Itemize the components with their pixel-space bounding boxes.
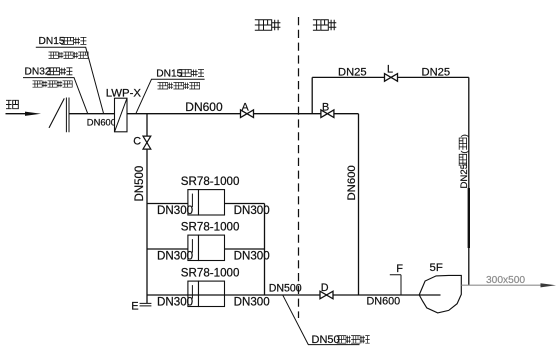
svg-text:DN15: DN15 — [39, 36, 65, 47]
wire filter branch row2 — [147, 248, 265, 250]
label DN500 vertical — [134, 166, 146, 202]
svg-text:DN600: DN600 — [346, 165, 358, 200]
label line2 radioactive sampling tube — [33, 81, 73, 87]
sampling tap F — [390, 275, 401, 295]
label DN32 galvanized tube — [25, 67, 73, 78]
svg-text:SR78-1000: SR78-1000 — [181, 220, 240, 233]
wire right manifold — [264, 204, 266, 296]
svg-text:DN600: DN600 — [367, 296, 401, 308]
svg-text:DN600: DN600 — [185, 100, 223, 114]
valve C — [143, 136, 151, 149]
leader for DN32 label — [23, 78, 88, 114]
filter SR78-1000 unit 3 — [188, 281, 225, 306]
svg-text:DN500: DN500 — [134, 166, 146, 202]
leader for right DN15 label — [136, 79, 205, 113]
svg-text:DN50: DN50 — [312, 334, 340, 346]
svg-text:DN300: DN300 — [157, 296, 193, 309]
arrow outlet flow — [541, 283, 557, 287]
label line2 filter pressure tube — [158, 83, 200, 90]
leader for DN15 label — [36, 47, 104, 113]
fan 5F outline — [419, 275, 461, 313]
svg-text:DN25: DN25 — [459, 164, 470, 189]
leader drain annotation — [283, 295, 360, 344]
wire DN25 right vertical — [468, 77, 470, 285]
svg-text:A: A — [242, 101, 250, 113]
svg-text:DN500: DN500 — [269, 282, 302, 294]
wire DN600 drop from B — [358, 114, 360, 295]
wire fan outlet duct 300x500 — [461, 284, 541, 286]
svg-text:): ) — [459, 134, 469, 137]
svg-text:B: B — [322, 101, 329, 113]
arrow fresh-air flow — [25, 112, 41, 116]
svg-text:DN32: DN32 — [25, 67, 51, 78]
label DN15 galvanized tube (top-left) — [39, 36, 87, 47]
svg-text:DN15: DN15 — [156, 68, 182, 79]
wire DN25 riser up — [311, 77, 313, 113]
oil-net dust filter LWP-X — [115, 98, 128, 132]
label DN25 galvanized vertical — [459, 134, 470, 188]
svg-text:L: L — [387, 64, 393, 76]
flexible joint double lines — [66, 98, 69, 133]
label contaminated zone — [255, 20, 281, 30]
svg-text:DN25: DN25 — [338, 66, 367, 78]
wire bottom duct — [147, 294, 441, 296]
wire filter branch row1 — [147, 203, 265, 205]
svg-text:DN600: DN600 — [87, 116, 116, 127]
wire fresh-air inlet stub — [6, 113, 26, 115]
filter SR78-1000 unit 1 — [188, 190, 225, 215]
valve A — [241, 110, 254, 118]
svg-text:SR78-1000: SR78-1000 — [181, 175, 240, 188]
label clean zone — [313, 20, 336, 30]
label line2 pressure-measuring tube — [49, 52, 89, 58]
valve L — [385, 74, 398, 82]
svg-text:F: F — [396, 263, 403, 275]
wire main duct DN600 — [69, 113, 359, 115]
blind-flange cap E — [140, 303, 152, 306]
svg-text:(: ( — [459, 151, 469, 154]
wire left vertical DN500 drop — [146, 114, 148, 304]
svg-text:LWP-X: LWP-X — [106, 88, 142, 100]
svg-text:SR78-1000: SR78-1000 — [181, 266, 240, 279]
svg-text:E: E — [131, 301, 138, 313]
svg-text:D: D — [321, 282, 329, 294]
svg-text:5F: 5F — [430, 262, 443, 274]
label DN15 galvanized tube (right) — [156, 68, 204, 79]
wire DN25 top line — [312, 76, 469, 78]
label DN50 drain valve — [312, 334, 370, 346]
svg-text:DN300: DN300 — [234, 296, 270, 309]
valve D — [320, 291, 333, 299]
svg-text:DN25: DN25 — [422, 66, 451, 78]
svg-text:DN300: DN300 — [157, 204, 193, 217]
svg-text:300x500: 300x500 — [486, 275, 525, 286]
valve B — [321, 110, 334, 118]
zone boundary dashed line — [298, 17, 300, 318]
label XinFeng (fresh air) — [6, 100, 18, 108]
svg-text:DN300: DN300 — [157, 250, 193, 263]
svg-text:C: C — [133, 135, 141, 147]
wire DN25 vertical thick segment — [468, 188, 470, 248]
damper diagonal blade — [49, 98, 64, 128]
filter SR78-1000 unit 2 — [188, 235, 225, 260]
label DN600 vertical — [346, 165, 358, 200]
